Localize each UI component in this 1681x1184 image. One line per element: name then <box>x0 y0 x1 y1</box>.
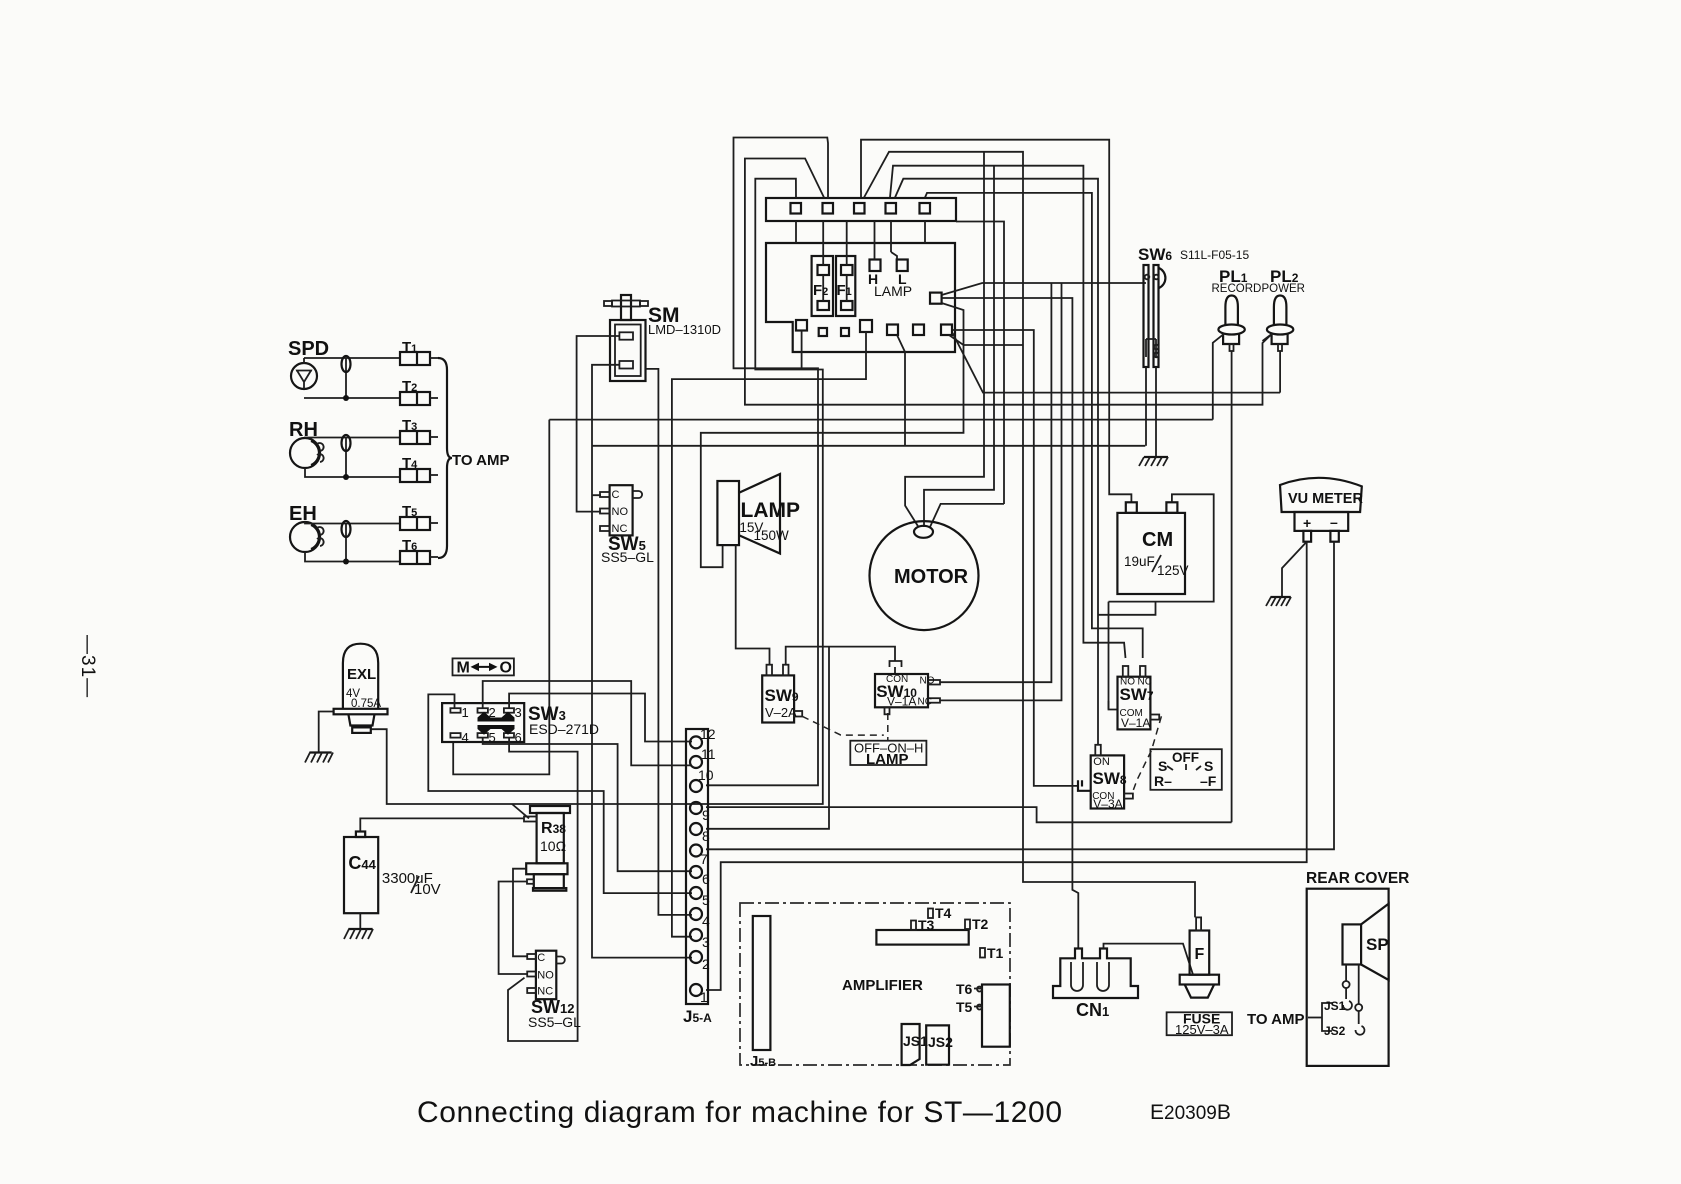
solenoid SM LMD-1310D <box>610 320 646 381</box>
wire nest: sq3 diag to F-feed riser (x1023) <box>864 152 1195 918</box>
dashed link SW9 to OFF-ON-H LAMP <box>802 716 884 735</box>
block bottom terminal row <box>796 320 807 331</box>
ground under SW6 <box>1144 456 1168 458</box>
switch SW8 V-3A <box>1091 755 1124 808</box>
svg-text:S: S <box>1204 758 1213 774</box>
wire SW3 P2 to J5 pin11 <box>483 681 692 765</box>
wire block mid-sq to J5 pin3 riser (x671.9) <box>672 332 866 937</box>
svg-text:LMD–1310D: LMD–1310D <box>648 322 721 337</box>
svg-text:NO: NO <box>537 970 554 982</box>
wire CM right pin loop to SW7 area <box>1109 494 1214 601</box>
wire block sq7 diag to PL2 line (y392.6) <box>953 333 1281 393</box>
wire strip sq5 to block <box>924 221 926 243</box>
pin T2 <box>965 920 970 930</box>
svg-text:POWER: POWER <box>1262 283 1305 295</box>
svg-text:R–: R– <box>1154 773 1172 789</box>
node block right-middle terminal <box>930 293 942 304</box>
wire EXL feed branch diagonal to R38 pin <box>512 804 529 818</box>
svg-text:R38: R38 <box>541 820 566 837</box>
wire R38 flange to SW12 C <box>513 869 527 957</box>
svg-text:LAMP: LAMP <box>741 499 801 522</box>
fuse holder F <box>1190 931 1210 975</box>
switch SW12 SS5-GL <box>536 951 556 1000</box>
svg-text:JS1: JS1 <box>903 1033 928 1049</box>
bracket JS1/JS2 <box>1322 1003 1332 1031</box>
wire strip sq1 to block <box>795 221 797 243</box>
ground under EXL <box>309 751 331 753</box>
wire SW3 P4 riser x549.3 <box>453 420 549 775</box>
lamp F2 <box>812 256 833 316</box>
svg-text:12: 12 <box>700 726 716 742</box>
label plate M to O <box>453 658 514 675</box>
svg-text:3: 3 <box>702 934 710 950</box>
svg-text:AMPLIFIER: AMPLIFIER <box>842 977 923 994</box>
svg-text:V–1A: V–1A <box>887 695 916 709</box>
wire SM lower pin / SW5 C / J5 pin2 riser <box>592 365 692 958</box>
switch SW5 SS5-GL <box>610 485 633 535</box>
wire motor rail y345 <box>964 344 1024 346</box>
wire VU + down to J5 pin1 line <box>706 542 1307 990</box>
wire EH to T5/T6 <box>305 522 400 562</box>
wire block sq7 to SW8 CON riser (x1033.8) <box>953 330 1078 786</box>
head block outline <box>766 243 955 352</box>
svg-text:4: 4 <box>702 913 710 929</box>
svg-text:150W: 150W <box>754 528 790 543</box>
capacitor CM 19uF/125V <box>1117 513 1185 594</box>
ground under C44 <box>348 928 372 930</box>
dashed link SW10 to OFF-ON-H LAMP <box>887 713 889 741</box>
wire CN1 right pin to F base <box>1104 944 1194 975</box>
wire SW6 right plate to ground <box>1155 367 1157 456</box>
switch SW10 V-1A <box>875 674 928 707</box>
capacitor C44 3300uF/10V <box>344 837 378 913</box>
wire C44 to ground <box>359 913 361 928</box>
svg-text:—31—: —31— <box>77 635 98 698</box>
wire nest: sq4 to pin9-line riser (x1100.3) <box>895 179 1098 745</box>
switch SW9 V-2A <box>762 675 794 722</box>
wire long horizontal y446 from SM riser to SW6 left plate <box>592 445 1145 447</box>
speaker SP <box>1343 924 1362 964</box>
wire PL2 diag lead <box>1263 334 1273 341</box>
wire SP lead 1 with jack JS1 <box>1345 965 1347 982</box>
pin T1 <box>980 948 985 958</box>
svg-text:SP: SP <box>1366 935 1389 954</box>
brace TO AMP <box>438 358 452 558</box>
plug JS2 (amp) <box>926 1025 949 1064</box>
svg-text:3: 3 <box>515 705 522 720</box>
connector J5-A <box>686 729 708 1004</box>
wire SW3 P6 to SW12 loop <box>508 738 578 1041</box>
svg-text:7: 7 <box>700 851 708 867</box>
svg-text:6: 6 <box>515 730 522 745</box>
wire block sq6 riser to SW10 CON (x898) <box>897 335 905 446</box>
svg-text:+: + <box>1303 515 1311 531</box>
wire F2 to strip <box>822 221 824 265</box>
node H lamp terminal <box>870 260 881 272</box>
amp right connector <box>982 985 1010 1047</box>
svg-text:C: C <box>537 952 545 964</box>
svg-text:C: C <box>612 489 620 501</box>
meter VU METER <box>1280 478 1362 512</box>
svg-text:T6: T6 <box>956 981 973 997</box>
svg-text:SS5–GL: SS5–GL <box>601 549 654 565</box>
connector CN1 <box>1053 949 1138 999</box>
wire VU - down to J5 pin7 line <box>706 542 1334 850</box>
wire F1 to strip <box>846 221 848 265</box>
svg-text:T4: T4 <box>935 905 952 921</box>
wire long y419.6: SW3 P4 riser to PL1 <box>549 419 1213 421</box>
svg-text:0.75A: 0.75A <box>351 698 381 710</box>
wire nest: strip sq2 loop to J5 pin10 (via x733.5, y368, x818) <box>706 138 828 786</box>
wire PL1 diag lead to y419.6 line <box>1213 334 1224 420</box>
svg-text:JS1: JS1 <box>1324 999 1346 1013</box>
wire L riser <box>890 221 892 252</box>
wire nest: sq1 riser to EXL feed (x755.3 y369.5 x822.8 y804) <box>371 179 823 804</box>
svg-text:2: 2 <box>702 956 710 972</box>
wire SW9 right pin to SW10 CON rail <box>786 647 895 665</box>
wire J5 pin8 riser <box>706 647 829 829</box>
label plate OFF-ON-H LAMP <box>850 741 926 765</box>
wire LAMP bottom to SW9 rail <box>736 545 770 665</box>
svg-text:–: – <box>1330 514 1338 530</box>
svg-text:4: 4 <box>462 730 469 745</box>
svg-text:10: 10 <box>698 767 714 783</box>
svg-text:V–3A: V–3A <box>1093 797 1122 811</box>
svg-text:S11L-F05-15: S11L-F05-15 <box>1180 248 1249 262</box>
wire SW10 NC riser (x1061.5) <box>940 283 1062 700</box>
wire SW7 COM drop (x1108.5 from CM loop) <box>1109 602 1118 710</box>
wire motor right lead <box>930 504 1004 527</box>
wire VU + to ground <box>1282 542 1307 596</box>
switch SW3 ESD-271D <box>442 703 524 742</box>
wire block sq to lamp feed riser (x963.5) <box>701 303 964 567</box>
node L lamp terminal <box>897 260 908 272</box>
wire SP lead 2 with jack JS2 <box>1358 965 1360 1005</box>
wire SW6 ground to SW8 top feed <box>1098 602 1156 615</box>
amp internal terminal bar <box>876 930 968 945</box>
resistor R38 10ohm <box>530 806 570 813</box>
svg-text:19uF: 19uF <box>1124 554 1155 569</box>
wire H riser <box>874 221 876 260</box>
svg-text:1: 1 <box>462 705 469 720</box>
svg-text:JS2: JS2 <box>928 1034 953 1050</box>
svg-text:F: F <box>1195 946 1205 963</box>
wire SW3 P3 to J5 pin12 <box>509 694 692 742</box>
svg-text:LAMP: LAMP <box>866 751 909 768</box>
wire SW3 P1 loop to J5 pin5 <box>428 694 692 893</box>
svg-text:NO: NO <box>612 506 629 518</box>
wire J5 pin9 to PL1 riser <box>706 807 1232 822</box>
svg-text:NC: NC <box>918 697 932 708</box>
wire SW3 P5 to J5 pin6 <box>483 738 692 872</box>
lamp EXL 4V 0.75A <box>343 644 378 709</box>
svg-text:T1: T1 <box>987 945 1004 961</box>
svg-text:1: 1 <box>700 989 708 1005</box>
svg-text:REAR COVER: REAR COVER <box>1306 870 1409 887</box>
svg-text:EXL: EXL <box>347 666 376 683</box>
svg-text:11: 11 <box>701 746 716 762</box>
wire SW10 NO riser (x1051.4) <box>940 283 1051 682</box>
wire strip right to motor riser (x1004) <box>956 222 1004 505</box>
wire nest: sq3 to CM left pin and SW7 COM (x1109) <box>861 140 1131 503</box>
label plate OFF S S R F <box>1150 749 1221 790</box>
svg-text:ON: ON <box>1093 756 1110 768</box>
wire EXL flange to ground <box>319 712 334 752</box>
svg-text:NO: NO <box>920 676 935 687</box>
label plate FUSE 125V-3A <box>1167 1012 1232 1035</box>
wire SM line to J5 pin4 <box>646 369 693 915</box>
slide arrows <box>478 712 515 722</box>
svg-text:RECORD: RECORD <box>1212 283 1262 295</box>
wire motor mid lead <box>924 166 994 527</box>
svg-text:V–1A: V–1A <box>1121 716 1150 730</box>
wire SPD to T1/T2 <box>304 358 400 398</box>
svg-text:NC: NC <box>537 986 553 998</box>
wire motor left lead <box>905 152 984 527</box>
terminal strip <box>766 198 956 221</box>
wire block sq to CN1 riser (x1072.4) <box>942 298 1079 949</box>
plug JS1 (amp) <box>902 1024 920 1065</box>
svg-text:T5: T5 <box>956 999 973 1015</box>
dashed link SW7 to SW8 <box>1132 716 1162 794</box>
svg-text:SS5–GL: SS5–GL <box>528 1014 581 1030</box>
lamp F1 <box>836 256 855 316</box>
svg-text:T3: T3 <box>918 917 935 933</box>
svg-text:VU METER: VU METER <box>1288 491 1363 507</box>
wire RH to T3/T4 <box>305 438 400 478</box>
svg-text:TO AMP: TO AMP <box>452 452 510 469</box>
svg-text:V–2A: V–2A <box>765 705 797 720</box>
wire PL1 down to J5 pin9 line <box>1231 351 1233 822</box>
svg-text:6: 6 <box>702 871 710 887</box>
pin T3 <box>911 921 916 931</box>
svg-text:TO AMP: TO AMP <box>1247 1011 1305 1028</box>
svg-text:9: 9 <box>702 807 710 823</box>
wire R38 lower pin to SW12 NO <box>499 882 527 975</box>
svg-text:O: O <box>500 660 512 677</box>
wire nest: sq4 to SW7 NO riser (x1083.4) <box>890 166 1126 658</box>
svg-text:JS2: JS2 <box>1324 1024 1346 1038</box>
wire block sq2 drop to y368 <box>801 331 803 369</box>
wire SM upper pin to SW5 NO <box>577 336 619 512</box>
svg-text:LAMP: LAMP <box>874 283 912 299</box>
svg-text:S: S <box>1158 758 1167 774</box>
svg-text:ESD–271D: ESD–271D <box>529 721 599 737</box>
wire SW6 left plate down to y446 <box>1145 367 1147 446</box>
svg-text:MOTOR: MOTOR <box>894 566 969 588</box>
switch SW7 V-1A <box>1118 677 1151 730</box>
svg-text:CM: CM <box>1142 529 1173 551</box>
svg-text:E20309B: E20309B <box>1150 1101 1231 1124</box>
svg-text:8: 8 <box>702 828 710 844</box>
pin T4 <box>928 909 933 919</box>
svg-text:5: 5 <box>489 730 496 745</box>
wire block sq7 diag to motor rail <box>949 335 964 345</box>
amplifier AMPLIFIER <box>740 903 1010 1065</box>
lamp LAMP 15V 150W <box>717 481 739 545</box>
svg-text:10Ω: 10Ω <box>540 838 566 854</box>
connector J5-B <box>753 916 771 1050</box>
svg-text:SPD: SPD <box>288 338 329 360</box>
wire PL2 down to y392.6 <box>1279 351 1281 393</box>
svg-text:–F: –F <box>1200 773 1217 789</box>
wire C44 to R38 pin <box>360 818 524 831</box>
wire nest: sq2 inner loop to PL2 line (x744.9 y404.7) <box>745 159 1272 405</box>
svg-text:125V: 125V <box>1157 563 1189 578</box>
svg-text:5: 5 <box>702 892 710 908</box>
motor MOTOR <box>870 521 979 630</box>
svg-text:T2: T2 <box>972 916 989 932</box>
ground under VU <box>1271 596 1291 598</box>
svg-text:Connecting diagram for mach: Connecting diagram for machine for ST—12… <box>417 1096 1062 1129</box>
wire nest: sq5 to SW7 NC riser (x1091.9) <box>925 193 1143 658</box>
svg-text:10V: 10V <box>414 881 441 898</box>
svg-text:M: M <box>457 660 470 677</box>
svg-text:OFF: OFF <box>1172 750 1199 765</box>
svg-text:125V–3A: 125V–3A <box>1175 1022 1229 1037</box>
wire block sq diag up to SW6 (y283) <box>942 283 1146 295</box>
